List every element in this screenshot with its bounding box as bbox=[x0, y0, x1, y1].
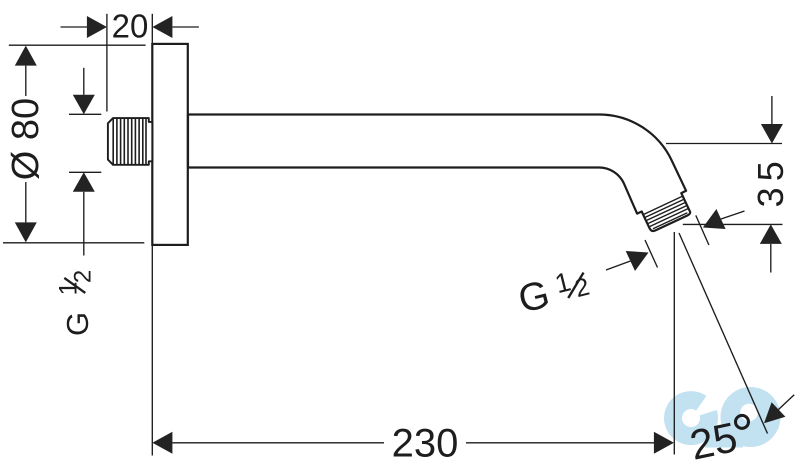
dimension 230: right arrow bbox=[654, 432, 674, 454]
tip knurl stripes bbox=[644, 196, 688, 228]
thread dimension: lower arrow bbox=[73, 172, 95, 192]
tip thread tick lower-left bbox=[645, 240, 658, 268]
svg-text:2: 2 bbox=[69, 270, 96, 283]
dimension 230: left arrow bbox=[152, 432, 172, 454]
thread diameter ticks (wall side) bbox=[69, 68, 101, 256]
svg-text:230: 230 bbox=[392, 422, 459, 466]
dimension 20: leader lines and extension lines bbox=[61, 14, 199, 112]
label G 1/2 (tip) bbox=[514, 262, 594, 321]
svg-text:25: 25 bbox=[686, 413, 741, 466]
tip G1/2 leader line bbox=[606, 261, 630, 270]
svg-text:G: G bbox=[60, 312, 95, 336]
dimension O80: top arrow bbox=[15, 46, 37, 66]
tip thread tick upper-right bbox=[696, 215, 709, 245]
dimension O80: bottom arrow bbox=[15, 222, 37, 242]
dimension 35: bottom arrow bbox=[760, 224, 782, 244]
dimension Ø80 (plate diameter) bbox=[3, 45, 146, 243]
dimension 20: right arrow bbox=[152, 16, 172, 38]
thread dimension: upper arrow bbox=[73, 95, 95, 115]
fitting knurl stripes bbox=[113, 118, 146, 164]
25 degree ray bbox=[679, 233, 768, 434]
shower arm tube with bend and threaded tip bbox=[188, 115, 690, 232]
dimension 35: top arrow bbox=[761, 124, 783, 144]
svg-text:20: 20 bbox=[112, 7, 149, 44]
dimension 35 (tip drop) bbox=[666, 96, 783, 273]
tip G1/2 leader arrow head bbox=[626, 251, 649, 271]
angle arrow head bbox=[764, 402, 785, 423]
dimension 20: left arrow bbox=[87, 16, 107, 38]
tip right arrow head bbox=[703, 209, 726, 229]
svg-text:Ø 80: Ø 80 bbox=[5, 98, 47, 180]
degree symbol of 25 bbox=[736, 415, 749, 428]
tip right arrow tail bbox=[721, 211, 745, 219]
wall-side knurled thread fitting bbox=[108, 118, 152, 165]
dimension 230 (arm length) bbox=[152, 232, 674, 456]
wall flange plate bbox=[152, 44, 188, 245]
label G 1/2 (wall side) bbox=[54, 270, 96, 336]
svg-text:35: 35 bbox=[750, 155, 791, 207]
watermark logo bbox=[673, 387, 780, 448]
angle arrow tail bbox=[779, 395, 795, 410]
